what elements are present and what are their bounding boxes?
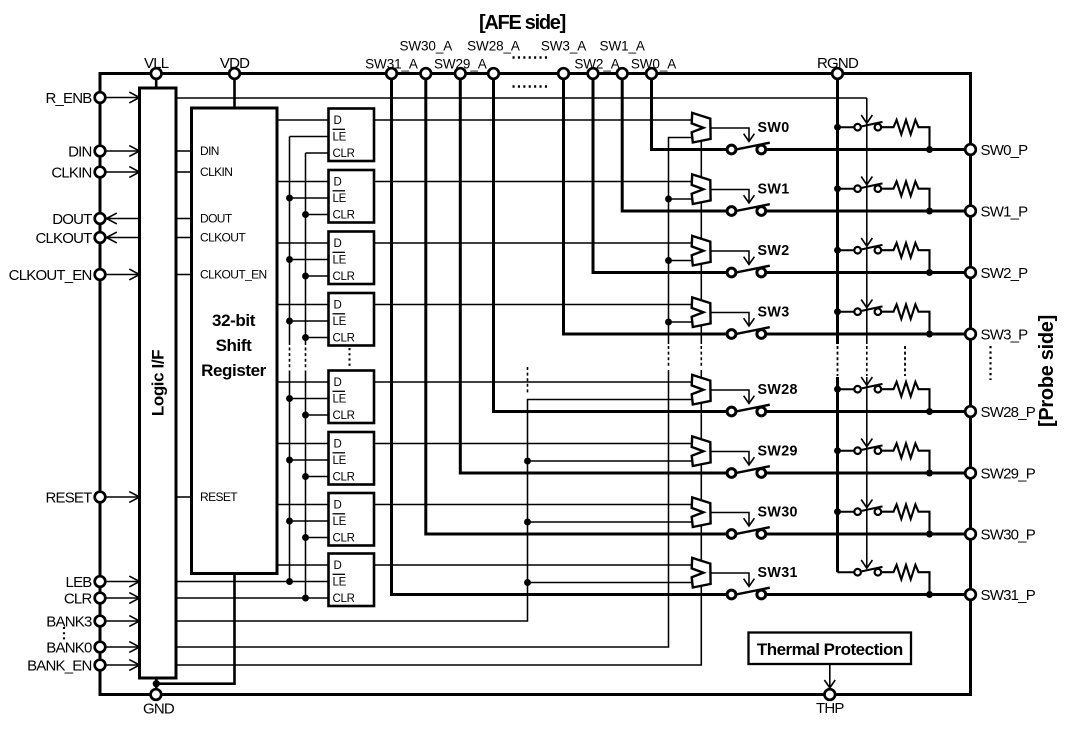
- switch SW31: [727, 588, 770, 599]
- svg-text:SW29_P: SW29_P: [981, 465, 1036, 482]
- pin SW2_A: [574, 57, 619, 79]
- resistor R2: [881, 243, 930, 273]
- svg-text:SW31: SW31: [758, 565, 798, 581]
- svg-text:SW28_A: SW28_A: [467, 39, 520, 54]
- pin SW30_P: [965, 526, 1035, 543]
- svg-text:SW2: SW2: [758, 243, 790, 259]
- wire RGND-switch control rail with per-row arrows: [861, 98, 872, 568]
- wire RGND rail: [836, 74, 839, 573]
- pin RGND: [817, 55, 859, 79]
- label SW30: [758, 505, 798, 521]
- label SW1: [758, 182, 790, 198]
- svg-text:CLR: CLR: [333, 532, 355, 544]
- svg-text:D: D: [334, 499, 342, 511]
- wire shift-register bit to latch U6 D input: [277, 443, 329, 445]
- probe-side continuation dots: [989, 346, 991, 380]
- svg-text:SW29: SW29: [758, 444, 798, 460]
- pin SW31_A: [365, 57, 418, 79]
- svg-text:VLL: VLL: [144, 55, 169, 72]
- latch U4 (D/LE/CLR for SW3): [329, 293, 375, 346]
- wire shift-register bit to latch U8 D input: [277, 564, 329, 566]
- switch SW3: [727, 327, 770, 338]
- block 32-bit Shift Register: [192, 108, 278, 574]
- wire Logic I/F to shift register CLKOUT_EN: [176, 274, 192, 276]
- svg-text:LE: LE: [333, 193, 347, 205]
- wire VDD to shift register: [233, 74, 236, 109]
- pin SW1_P: [965, 203, 1028, 220]
- svg-text:SW1: SW1: [758, 182, 790, 198]
- wire latch U4 output to driver B3: [374, 304, 692, 306]
- pin BANK_EN with arrow: [27, 657, 139, 674]
- wire shift-register bit to latch U3 D input: [277, 242, 329, 244]
- switch SW28: [727, 405, 770, 416]
- svg-text:SW30_P: SW30_P: [981, 526, 1036, 543]
- pin SW2_P: [965, 265, 1028, 282]
- pin DIN with arrow: [68, 143, 139, 160]
- svg-text:D: D: [334, 176, 342, 188]
- latch U3 (D/LE/CLR for SW2): [329, 232, 375, 285]
- pin SW31_P: [965, 587, 1035, 604]
- pin BANK0 with arrow: [46, 639, 139, 656]
- wire R_ENB control line from Logic I/F to RGND switch column: [176, 97, 867, 99]
- svg-text:RESET: RESET: [200, 490, 238, 504]
- svg-text:CLKOUT_EN: CLKOUT_EN: [9, 267, 92, 284]
- wire switch SW0 to pin SW0_P with resistor tap junction: [761, 146, 970, 153]
- svg-text:SW3_A: SW3_A: [541, 39, 586, 54]
- latch U5 (D/LE/CLR for SW28): [329, 371, 375, 424]
- svg-text:D: D: [334, 115, 342, 127]
- wire shift-register bit to latch U7 D input: [277, 504, 329, 506]
- svg-text:CLR: CLR: [333, 271, 355, 283]
- RGND shunt switch for SW28: [834, 384, 882, 393]
- svg-text:BANK3: BANK3: [46, 613, 92, 630]
- driver buffer B3: [692, 297, 711, 327]
- svg-text:SW2_A: SW2_A: [574, 57, 619, 72]
- svg-text:CLR: CLR: [333, 410, 355, 422]
- pin CLR with arrow: [64, 590, 140, 607]
- RGND shunt switch for SW2: [834, 245, 882, 254]
- svg-text:LE: LE: [333, 576, 347, 588]
- svg-text:SW1_P: SW1_P: [981, 203, 1029, 220]
- driver buffer B31: [692, 558, 711, 588]
- wire latch U1 CLR input: [306, 152, 329, 154]
- svg-text:Register: Register: [201, 361, 267, 380]
- svg-text:DOUT: DOUT: [52, 211, 92, 228]
- svg-text:VDD: VDD: [220, 55, 250, 72]
- wire Logic I/F to shift register CLKIN: [176, 171, 192, 173]
- svg-text:SW1_A: SW1_A: [600, 39, 645, 54]
- RGND shunt switch for SW31: [838, 567, 883, 576]
- svg-text:R_ENB: R_ENB: [45, 90, 92, 107]
- svg-text:SW28_P: SW28_P: [981, 404, 1036, 421]
- latch U7 (D/LE/CLR for SW30): [329, 493, 375, 546]
- svg-text:DIN: DIN: [200, 144, 219, 158]
- switch SW0: [727, 143, 770, 154]
- wire shift register ground return to GND: [153, 574, 235, 691]
- label SW31: [758, 565, 798, 581]
- top pin-row continuation dots: [513, 58, 549, 87]
- svg-text:BANK_EN: BANK_EN: [27, 657, 91, 674]
- wire shift-register bit to latch U4 D input: [277, 304, 329, 306]
- label SW3: [758, 305, 790, 321]
- wire switch SW3 to pin SW3_P with resistor tap junction: [761, 331, 970, 338]
- driver buffer B0: [692, 113, 711, 143]
- svg-text:LE: LE: [333, 455, 347, 467]
- pin SW3_P: [965, 326, 1028, 343]
- wire SW3_A pin to switch SW3 pole: [564, 74, 732, 335]
- resistor R31: [881, 565, 930, 595]
- svg-text:SW30: SW30: [758, 505, 798, 521]
- label SW0: [758, 120, 790, 136]
- switch SW1: [727, 204, 770, 215]
- block Thermal Protection: [749, 633, 912, 665]
- svg-text:Thermal Protection: Thermal Protection: [757, 640, 903, 659]
- wire driver B2 output with arrow onto switch SW2: [711, 251, 755, 265]
- pin VDD: [220, 55, 250, 79]
- svg-text:SW28: SW28: [758, 382, 798, 398]
- wire SW30_A pin to switch SW30 pole: [426, 74, 732, 535]
- svg-text:RGND: RGND: [817, 55, 859, 72]
- wire BANK0 select rail (feeds SW0-SW3 drivers): [176, 138, 692, 648]
- label SW29: [758, 444, 798, 460]
- wire shift-register bit to latch U1 D input: [277, 119, 329, 121]
- latch U8 (D/LE/CLR for SW31): [329, 554, 375, 607]
- svg-text:LE: LE: [333, 316, 347, 328]
- wire SW2_A pin to switch SW2 pole: [593, 74, 732, 273]
- svg-text:GND: GND: [143, 701, 175, 718]
- label SW28: [758, 382, 798, 398]
- wire SW31_A pin to switch SW31 pole: [392, 74, 732, 595]
- pin GND: [143, 689, 175, 717]
- pin DOUT with arrow: [52, 211, 139, 228]
- svg-text:D: D: [334, 299, 342, 311]
- svg-text:CLR: CLR: [333, 593, 355, 605]
- pin SW30_A: [399, 39, 452, 79]
- pin R_ENB with arrow: [45, 90, 139, 107]
- driver buffer B2: [692, 236, 711, 266]
- svg-text:SW0_A: SW0_A: [631, 57, 676, 72]
- block Logic I/F: [140, 88, 177, 678]
- pin CLKIN with arrow: [51, 164, 139, 181]
- svg-text:SW2_P: SW2_P: [981, 265, 1029, 282]
- label [Probe side]: [1036, 315, 1058, 427]
- wire switch SW31 to pin SW31_P with resistor tap junction: [761, 591, 970, 598]
- svg-text:CLKOUT: CLKOUT: [200, 231, 246, 245]
- svg-text:CLR: CLR: [333, 209, 355, 221]
- pin SW3_A: [541, 39, 586, 79]
- latch U1 (D/LE/CLR for SW0): [329, 109, 375, 162]
- svg-text:D: D: [334, 238, 342, 250]
- svg-text:LE: LE: [333, 516, 347, 528]
- pin SW28_P: [965, 404, 1035, 421]
- pin LEB with arrow: [66, 574, 140, 591]
- chip boundary wire (outer border connecting pins): [100, 74, 971, 695]
- wire SW1_A pin to switch SW1 pole: [622, 74, 731, 212]
- wire latch U6 output to driver B29: [374, 443, 692, 445]
- wire shift-register bit to latch U5 D input: [277, 381, 329, 383]
- wire latch U1 output to driver B0: [374, 119, 692, 121]
- wire driver B31 output with arrow onto switch SW31: [711, 573, 755, 587]
- wire driver B3 output with arrow onto switch SW3: [711, 313, 755, 327]
- driver buffer B1: [692, 174, 711, 204]
- wire switch SW28 to pin SW28_P with resistor tap junction: [761, 408, 970, 415]
- resistor R30: [881, 504, 930, 534]
- wire driver B0 output with arrow onto switch SW0: [711, 128, 755, 142]
- wire Logic I/F to shift register RESET: [176, 496, 192, 498]
- svg-text:LE: LE: [333, 393, 347, 405]
- driver buffer B29: [692, 436, 711, 466]
- svg-text:SW30_A: SW30_A: [399, 39, 452, 54]
- switch SW2: [727, 266, 770, 277]
- wire CLR rail from CLR pin: [176, 153, 329, 601]
- wire BANK3 select rail (feeds SW28-SW31 drivers): [176, 367, 692, 621]
- svg-text:CLR: CLR: [64, 590, 93, 607]
- wire switch SW1 to pin SW1_P with resistor tap junction: [761, 208, 970, 215]
- wire Logic I/F to shift register CLKOUT: [176, 237, 192, 239]
- svg-text:SW3: SW3: [758, 305, 790, 321]
- wire shift-register bit to latch U2 D input: [277, 181, 329, 183]
- resistor R0: [881, 120, 930, 150]
- wire driver B1 output with arrow onto switch SW1: [711, 190, 755, 204]
- svg-text:LE: LE: [333, 254, 347, 266]
- pin CLKOUT_EN with arrow: [9, 267, 140, 284]
- pin SW0_P: [965, 142, 1028, 159]
- svg-text:Shift: Shift: [216, 336, 253, 355]
- driver buffer B30: [692, 497, 711, 527]
- svg-text:CLKOUT: CLKOUT: [35, 230, 92, 247]
- resistor R3: [881, 304, 930, 334]
- pin SW29_A: [434, 57, 487, 79]
- pin SW0_A: [631, 57, 676, 79]
- svg-text:DIN: DIN: [68, 143, 91, 160]
- wire driver B28 output with arrow onto switch SW28: [711, 390, 755, 404]
- wire Logic I/F to shift register DOUT: [176, 218, 192, 220]
- BANK3..BANK0 continuation dots: [63, 627, 65, 641]
- resistor R28: [881, 382, 930, 412]
- row-gap continuation dots (resistor column): [904, 346, 906, 376]
- latch U2 (D/LE/CLR for SW1): [329, 170, 375, 223]
- wire SW0_A pin to switch SW0 pole: [652, 74, 732, 150]
- pin RESET with arrow: [45, 489, 139, 506]
- wire Thermal Protection to THP pin with arrow: [824, 664, 835, 688]
- resistor R29: [881, 443, 930, 473]
- resistor R1: [881, 181, 930, 211]
- wire Logic I/F to shift register DIN: [176, 150, 192, 152]
- pin VLL: [144, 55, 169, 79]
- wire switch SW29 to pin SW29_P with resistor tap junction: [761, 470, 970, 477]
- RGND shunt switch for SW1: [834, 183, 882, 192]
- svg-text:[Probe side]: [Probe side]: [1036, 315, 1058, 427]
- svg-text:LEB: LEB: [66, 574, 93, 591]
- label [AFE side]: [479, 12, 566, 34]
- svg-text:LE: LE: [333, 131, 347, 143]
- svg-text:CLKIN: CLKIN: [200, 165, 232, 179]
- wire switch SW2 to pin SW2_P with resistor tap junction: [761, 269, 970, 276]
- RGND shunt switch for SW3: [834, 306, 882, 315]
- switch SW29: [727, 466, 770, 477]
- wire LE rail from LEB: [176, 137, 329, 585]
- svg-text:CLR: CLR: [333, 332, 355, 344]
- svg-text:SW0: SW0: [758, 120, 790, 136]
- svg-text:D: D: [334, 560, 342, 572]
- svg-text:SW31_A: SW31_A: [365, 57, 418, 72]
- RGND shunt switch for SW0: [834, 122, 882, 131]
- svg-text:[AFE side]: [AFE side]: [479, 12, 566, 34]
- svg-text:SW3_P: SW3_P: [981, 326, 1029, 343]
- pin CLKOUT with arrow: [35, 230, 139, 247]
- svg-text:D: D: [334, 438, 342, 450]
- driver buffer B28: [692, 375, 711, 405]
- wire SW29_A pin to switch SW29 pole: [460, 74, 731, 474]
- svg-text:THP: THP: [816, 700, 844, 717]
- label SW2: [758, 243, 790, 259]
- svg-text:D: D: [334, 377, 342, 389]
- svg-text:CLR: CLR: [333, 471, 355, 483]
- pin THP: [816, 689, 844, 717]
- wire switch SW30 to pin SW30_P with resistor tap junction: [761, 531, 970, 538]
- wire latch U3 output to driver B2: [374, 242, 692, 244]
- pin SW29_P: [965, 465, 1035, 482]
- svg-text:CLKIN: CLKIN: [51, 164, 91, 181]
- svg-text:SW29_A: SW29_A: [434, 57, 487, 72]
- wire VLL to Logic I/F: [155, 74, 158, 89]
- svg-text:SW31_P: SW31_P: [981, 587, 1036, 604]
- pin SW1_A: [600, 39, 645, 79]
- wire driver B30 output with arrow onto switch SW30: [711, 513, 755, 527]
- svg-text:Logic I/F: Logic I/F: [149, 350, 168, 416]
- wire latch U8 output to driver B31: [374, 564, 692, 566]
- RGND shunt switch for SW29: [834, 445, 882, 454]
- pin SW28_A: [467, 39, 520, 79]
- svg-text:CLKOUT_EN: CLKOUT_EN: [200, 268, 267, 282]
- wire BANK_EN rail through driver column: [176, 120, 701, 665]
- wire SW28_A pin to switch SW28 pole: [494, 74, 732, 412]
- wire latch U7 output to driver B30: [374, 504, 692, 506]
- wire latch U5 output to driver B28: [374, 381, 692, 383]
- RGND shunt switch for SW30: [834, 506, 882, 515]
- wire latch U2 output to driver B1: [374, 181, 692, 183]
- pin BANK3 with arrow: [46, 613, 139, 630]
- latch U6 (D/LE/CLR for SW29): [329, 432, 375, 485]
- svg-text:BANK0: BANK0: [46, 639, 92, 656]
- svg-text:SW0_P: SW0_P: [981, 142, 1029, 159]
- svg-text:RESET: RESET: [45, 489, 92, 506]
- switch SW30: [727, 527, 770, 538]
- svg-text:32-bit: 32-bit: [212, 311, 256, 330]
- svg-text:DOUT: DOUT: [200, 212, 233, 226]
- wire latch U1 LE input: [290, 136, 329, 138]
- wire driver B29 output with arrow onto switch SW29: [711, 452, 755, 466]
- svg-text:CLR: CLR: [333, 148, 355, 160]
- latch column continuation marks: [349, 348, 351, 366]
